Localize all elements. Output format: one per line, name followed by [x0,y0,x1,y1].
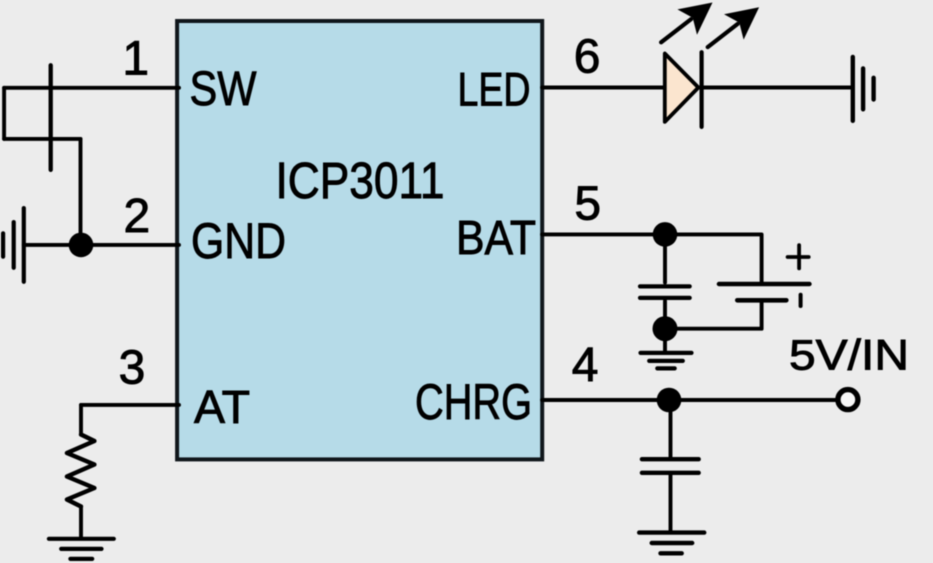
capacitor C1 plates [640,286,690,298]
junction dot GND node [69,233,94,258]
LED D1 triangle [665,54,699,122]
wire switch lower stub [4,137,80,141]
ground symbol right of LED [853,57,874,121]
junction dot CHRG node [657,388,682,413]
svg-text:3: 3 [119,342,146,395]
wire AT to resistor vertical [79,405,83,435]
wire LED pin 6 to diode [542,86,664,90]
battery plus label [788,245,809,268]
IC U1 ICP3011 body [177,21,542,459]
wire GND pin 2 horizontal [24,243,179,247]
wire CHRG pin 4 to input terminal [542,398,835,402]
svg-text:CHRG: CHRG [415,374,532,430]
battery BT1 negative short plate [737,298,786,303]
capacitor C2 top lead [669,400,673,457]
LED emission arrow 2 [708,7,759,47]
ground symbol left of GND pin [3,208,24,282]
wire SW pin 1 horizontal [4,86,179,90]
wire switch left vertical [2,88,6,139]
ground symbol under capacitor C2 [639,533,704,554]
ground symbol under resistor R1 [49,539,114,559]
svg-text:5: 5 [574,177,601,230]
LED emission arrow 1 [661,3,712,43]
wire BAT pin 5 to battery corner [542,234,762,282]
capacitor C2 bottom lead [669,475,673,531]
ground symbol under capacitor C1 [641,353,692,369]
svg-text:LED: LED [458,63,531,116]
battery minus label [799,295,803,306]
wire diode to right ground [702,86,851,90]
wire AT pin 3 horizontal [81,403,179,407]
capacitor C1 top lead [663,234,667,282]
junction dot BAT node top [653,222,678,247]
svg-text:GND: GND [191,213,286,269]
switch S1 actuator bar [49,65,53,170]
wire switch to GND node vertical [79,139,83,245]
resistor R1 zigzag [67,435,95,507]
svg-text:4: 4 [572,339,599,392]
capacitor C1 ground lead [663,329,667,351]
LED D1 cathode bar [699,52,703,127]
svg-text:6: 6 [574,31,601,84]
wire battery bottom return [665,302,762,329]
svg-text:BAT: BAT [456,212,536,265]
svg-text:5V/IN: 5V/IN [789,331,909,379]
svg-text:1: 1 [122,33,149,86]
battery BT1 positive long plate [719,282,810,286]
svg-text:AT: AT [194,381,250,433]
svg-text:ICP3011: ICP3011 [276,152,445,209]
terminal 5V/IN open circle [838,390,858,410]
wire resistor to ground vertical [79,507,83,538]
capacitor C2 plates [642,459,699,473]
svg-text:SW: SW [190,63,258,116]
capacitor C1 bottom lead [663,301,667,329]
svg-text:2: 2 [124,190,151,243]
junction dot BAT node bottom [653,316,678,341]
